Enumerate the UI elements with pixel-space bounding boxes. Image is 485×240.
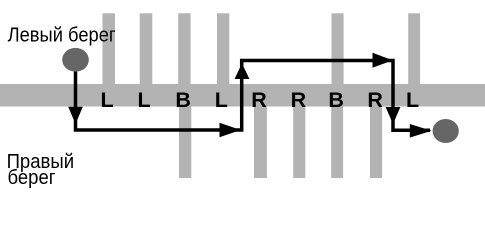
svg-text:R: R [367, 88, 383, 112]
svg-text:L: L [101, 88, 114, 112]
bridge bar L1 top [103, 13, 116, 84]
arrowhead right into end circle [410, 124, 432, 138]
svg-text:L: L [215, 88, 228, 112]
bridge bar B3 bottom [179, 107, 191, 179]
svg-text:L: L [138, 88, 151, 112]
svg-text:L: L [406, 88, 419, 112]
svg-text:Левый берег: Левый берег [8, 25, 116, 47]
arrowhead up onto left bank [235, 63, 250, 79]
route polyline wire [76, 60, 431, 130]
svg-text:B: B [328, 88, 344, 112]
bridge bar R5 bottom [254, 107, 267, 179]
bridge bar B7 top [332, 13, 344, 84]
bridge bar B3 top [178, 13, 190, 84]
bridge bar L2 top [140, 13, 153, 84]
arrowhead right before down turn [373, 53, 393, 68]
svg-text:R: R [251, 88, 267, 112]
end circle (traveller) [433, 119, 459, 143]
river band [0, 84, 485, 107]
start circle (traveller) [62, 48, 89, 72]
bridge bar L9 top [408, 13, 420, 84]
bridge bar R6 bottom [293, 107, 305, 179]
svg-text:берег: берег [8, 167, 56, 189]
svg-text:B: B [175, 88, 191, 112]
arrowhead right before up turn [220, 123, 241, 138]
bridge bar B7 bottom [331, 107, 343, 179]
arrowhead down onto right bank 2 [386, 107, 401, 124]
svg-text:R: R [291, 88, 307, 112]
arrowhead down onto right bank [68, 107, 83, 124]
bridge bar R8 bottom [370, 107, 382, 179]
bridge bar L4 top [217, 13, 229, 84]
